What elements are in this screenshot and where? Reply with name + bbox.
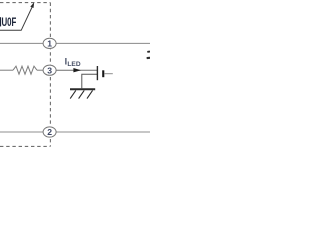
wire ground branch (corner from plate)	[82, 74, 97, 88]
wire top rail (pin 1)	[0, 42, 150, 44]
svg-text:LED: LED	[67, 61, 80, 68]
svg-text:U0F: U0F	[2, 16, 17, 29]
wire resistor to pin 3	[37, 69, 44, 71]
current arrow I_LED	[73, 68, 81, 72]
wire bottom rail (pin 2)	[0, 131, 150, 133]
battery plate short (thick bar)	[102, 70, 104, 77]
partial text at right edge (cut off)	[146, 51, 150, 60]
wire right stub	[104, 73, 113, 75]
pin 2	[43, 127, 56, 137]
callout leader line with arrowhead	[0, 2, 34, 30]
package outline (dashed box, cut off at left)	[0, 3, 50, 147]
label U0F (cut off at left edge)	[0, 16, 16, 29]
svg-text:3: 3	[47, 65, 52, 75]
resistor	[13, 66, 37, 74]
svg-text:1: 1	[47, 39, 52, 49]
ground	[70, 89, 95, 98]
wire resistor lead-in	[0, 69, 13, 71]
wire pin 3 to plate (I_LED path)	[56, 69, 98, 71]
svg-text:2: 2	[47, 127, 52, 137]
pin 1	[43, 38, 56, 48]
pin 3	[43, 65, 56, 75]
battery plate long (thin bar)	[96, 66, 98, 80]
label I_LED	[65, 57, 81, 68]
